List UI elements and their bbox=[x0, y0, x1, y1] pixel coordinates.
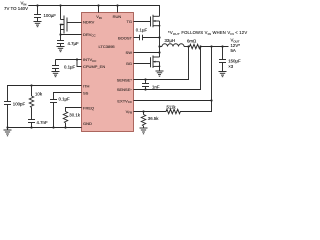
capacitor C4 100pF ITH bbox=[4, 102, 25, 128]
wire VIN pin stub bbox=[98, 6, 100, 13]
ground 36.5k bbox=[140, 128, 148, 134]
svg-text:4.7µF: 4.7µF bbox=[68, 41, 80, 46]
wire TG gate bbox=[134, 21, 151, 23]
node VOUT rail at output cap bbox=[221, 45, 223, 47]
node ITH junction at 10k bbox=[30, 84, 32, 86]
wire SENSE+ bbox=[134, 47, 189, 80]
wire FREQ bbox=[66, 108, 82, 112]
node SW bus at SW pin bbox=[158, 51, 160, 53]
transistor Q1 NDRV pass NMOS bbox=[60, 6, 67, 35]
wire VFB to VOUT vertical bbox=[182, 101, 212, 112]
transistor Q2 top NMOS bbox=[151, 15, 161, 57]
svg-text:×3: ×3 bbox=[228, 64, 234, 69]
svg-text:SENSE+: SENSE+ bbox=[117, 77, 133, 82]
ground INTVCC cap bbox=[52, 72, 60, 77]
wire EXTVCC to VOUT bbox=[134, 47, 212, 101]
capacitor C2 4.7uF DRVCC bbox=[57, 35, 79, 47]
wire VIN top rail bbox=[28, 6, 159, 17]
svg-text:EXTVCC: EXTVCC bbox=[117, 98, 132, 104]
node SW bus at boost cap bbox=[158, 36, 160, 38]
svg-text:12V*: 12V* bbox=[231, 43, 241, 48]
ground bottom NMOS source bbox=[156, 71, 164, 76]
svg-text:33µH: 33µH bbox=[165, 38, 175, 43]
svg-text:ITH: ITH bbox=[83, 83, 90, 88]
capacitor C1 100uF input bbox=[34, 6, 56, 22]
svg-text:10k: 10k bbox=[35, 91, 43, 96]
svg-text:VFB: VFB bbox=[126, 109, 132, 115]
svg-text:LTC3895: LTC3895 bbox=[99, 44, 116, 49]
node gnd bus at 100pF bbox=[6, 126, 8, 128]
node VIN rail junction at Q1 drain bbox=[59, 4, 61, 6]
svg-text:6mΩ: 6mΩ bbox=[187, 39, 197, 44]
wire BG gate bbox=[134, 63, 151, 65]
svg-text:INTVCC: INTVCC bbox=[83, 57, 96, 63]
node gnd bus at 0.1uF SS bbox=[52, 126, 54, 128]
svg-text:150µF: 150µF bbox=[228, 59, 241, 64]
svg-text:0.1µF: 0.1µF bbox=[59, 97, 71, 102]
svg-text:1nF: 1nF bbox=[152, 84, 160, 89]
node SW bus at inductor bbox=[158, 45, 160, 47]
svg-text:100µF: 100µF bbox=[44, 13, 57, 18]
svg-text:36.5k: 36.5k bbox=[148, 116, 159, 121]
wire NDRV gate bbox=[67, 22, 82, 24]
capacitor C3 0.1uF INTVCC bbox=[52, 60, 76, 72]
node gnd bus at 4.7nF bbox=[30, 126, 32, 128]
wire ground bus bottom bbox=[8, 127, 82, 129]
svg-text:VIN: VIN bbox=[96, 14, 102, 20]
svg-text:511k: 511k bbox=[167, 104, 177, 109]
svg-text:CPUMP_EN: CPUMP_EN bbox=[83, 64, 105, 69]
node VIN rail junction at VIN pin bbox=[97, 4, 99, 6]
node sense right bbox=[199, 45, 201, 47]
wire VFB bbox=[134, 111, 166, 113]
node VFB at 36.5k bbox=[142, 110, 144, 112]
svg-text:NDRV: NDRV bbox=[83, 20, 95, 25]
ground DRVCC cap bbox=[57, 47, 65, 52]
ground main bbox=[4, 128, 12, 136]
resistor R3 6m ohm sense bbox=[187, 39, 201, 49]
capacitor C6 0.1uF SS bbox=[50, 97, 70, 128]
svg-text:4.7nF: 4.7nF bbox=[37, 120, 48, 125]
IC U1 LTC3895 bbox=[82, 13, 134, 132]
wire INTVCC bbox=[56, 59, 82, 61]
capacitor C8 150uF x3 output bbox=[219, 47, 241, 72]
node SENSE- at 1nF bbox=[144, 88, 146, 90]
svg-text:SENSE–: SENSE– bbox=[117, 87, 133, 92]
node VIN rail junction at 100uF bbox=[36, 4, 38, 6]
resistor R2 30.1k bbox=[63, 112, 80, 128]
capacitor C5 4.7nF bbox=[28, 108, 48, 128]
svg-text:0.1µF: 0.1µF bbox=[64, 64, 76, 69]
capacitor C9 1nF sense filter bbox=[142, 80, 160, 90]
wire SENSE- bbox=[134, 47, 201, 90]
wire CPUMP_EN tie bbox=[77, 60, 82, 67]
wire DRVCC bbox=[61, 34, 82, 36]
ground input cap bbox=[34, 22, 42, 27]
svg-text:100pF: 100pF bbox=[13, 102, 26, 107]
wire RUN pin stub bbox=[117, 6, 119, 13]
transistor Q3 bottom NMOS bbox=[151, 56, 161, 72]
node VIN rail junction at RUN pin bbox=[116, 4, 118, 6]
svg-text:7V TO 140V: 7V TO 140V bbox=[4, 6, 28, 11]
svg-text:SW: SW bbox=[126, 50, 133, 55]
svg-text:TG: TG bbox=[126, 19, 132, 24]
node EXTVCC VFB vertical junction bbox=[210, 99, 212, 101]
capacitor C7 0.1uF boost bbox=[134, 28, 160, 41]
ground output cap bbox=[219, 72, 227, 77]
resistor R5 36.5k bbox=[141, 112, 159, 129]
svg-text:GND: GND bbox=[83, 121, 92, 126]
node sense left bbox=[187, 45, 189, 47]
svg-text:5A: 5A bbox=[231, 48, 236, 53]
node VOUT rail at feedback tap bbox=[210, 45, 212, 47]
node INTVCC to CPUMP_EN junction bbox=[76, 58, 78, 60]
svg-text:DRVCC: DRVCC bbox=[83, 32, 96, 38]
node SENSE+ at 1nF bbox=[144, 78, 146, 80]
svg-text:BG: BG bbox=[126, 61, 132, 66]
svg-text:FREQ: FREQ bbox=[83, 105, 94, 110]
wire ITH bbox=[8, 86, 82, 102]
svg-text:BOOST: BOOST bbox=[118, 35, 133, 40]
node gnd bus at 30.1k bbox=[64, 126, 66, 128]
inductor L1 33uH bbox=[160, 38, 189, 46]
svg-text:*VOUT FOLLOWS VIN WHEN VIN < 1: *VOUT FOLLOWS VIN WHEN VIN < 12V bbox=[168, 30, 247, 36]
svg-text:0.1µF: 0.1µF bbox=[136, 28, 148, 33]
wire VOUT rail bbox=[201, 46, 229, 48]
svg-text:RUN: RUN bbox=[113, 14, 122, 19]
resistor R1 10k bbox=[29, 86, 43, 108]
svg-text:SS: SS bbox=[83, 90, 89, 95]
svg-text:30.1k: 30.1k bbox=[69, 113, 80, 118]
wire SS bbox=[54, 93, 82, 100]
wire SW bbox=[134, 52, 160, 54]
resistor R4 511k bbox=[165, 104, 182, 113]
